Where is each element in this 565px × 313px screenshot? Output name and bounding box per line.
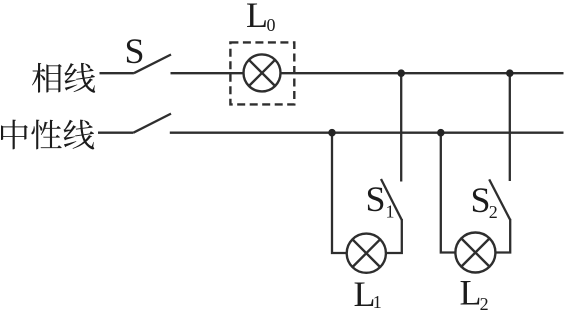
svg-text:0: 0 xyxy=(267,15,276,35)
wire live to lamp L0 xyxy=(171,72,244,74)
svg-text:2: 2 xyxy=(480,294,489,313)
junction dot on live wire (branch2) xyxy=(506,69,514,77)
switch S2 blade xyxy=(489,179,510,220)
wire live right of L0 to end xyxy=(281,72,564,74)
dashed enclosure around lamp L0 xyxy=(230,42,294,104)
svg-text:L: L xyxy=(246,0,268,35)
wire branch1 right upper (live to switch S1) xyxy=(400,73,402,181)
wire branch1 left (neutral to lamp L1) xyxy=(332,133,347,253)
svg-text:L: L xyxy=(460,273,482,313)
wire branch1 right lower (S1 to lamp L1) xyxy=(386,219,402,253)
svg-text:1: 1 xyxy=(373,292,382,312)
lamp L2 xyxy=(455,233,495,273)
wire neutral right segment xyxy=(170,132,564,134)
wire branch2 right lower (S2 to lamp L2) xyxy=(495,219,510,253)
junction dot on neutral wire (branch1) xyxy=(328,129,336,137)
wire neutral left segment xyxy=(98,132,133,134)
svg-text:1: 1 xyxy=(386,202,395,222)
wire live left segment xyxy=(100,72,134,74)
wire branch2 right upper (live to switch S2) xyxy=(509,73,511,181)
node label 中性线 (neutral wire text) xyxy=(1,120,94,150)
node label 相线 (live wire text) xyxy=(32,63,95,93)
switch S1 blade xyxy=(381,179,402,220)
svg-text:S: S xyxy=(471,180,491,220)
lamp L0 xyxy=(244,54,281,91)
svg-text:2: 2 xyxy=(489,202,498,222)
svg-text:S: S xyxy=(366,179,386,219)
wire branch2 left (neutral to lamp L2) xyxy=(441,133,456,253)
junction dot on live wire (branch1) xyxy=(397,69,405,77)
switch blade on neutral xyxy=(133,114,171,133)
svg-text:S: S xyxy=(125,31,145,71)
switch S blade xyxy=(134,55,171,74)
lamp L1 xyxy=(347,234,386,273)
junction dot on neutral wire (branch2) xyxy=(437,129,445,137)
